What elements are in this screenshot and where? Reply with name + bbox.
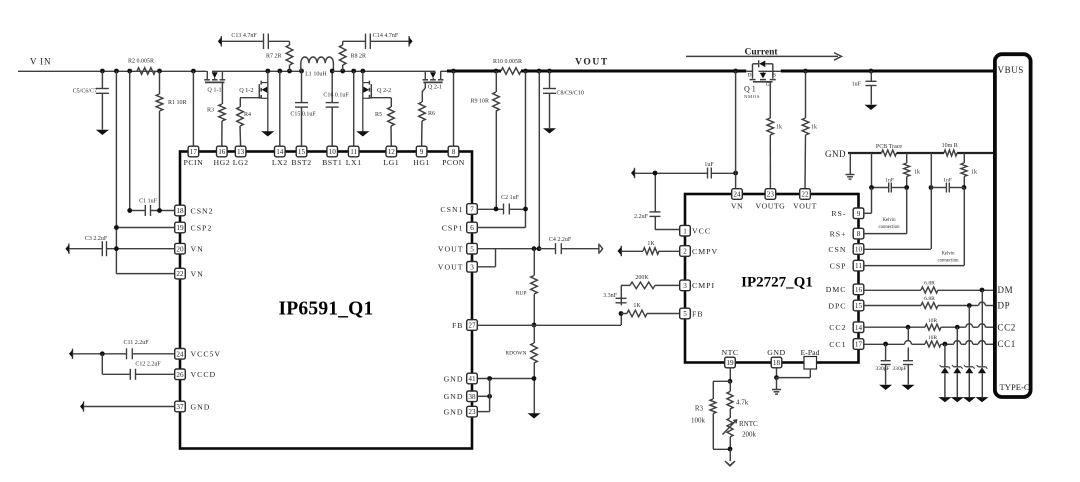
svg-text:IP2727_Q1: IP2727_Q1 bbox=[741, 275, 813, 291]
svg-text:15: 15 bbox=[855, 302, 863, 310]
svg-text:R5: R5 bbox=[375, 112, 382, 118]
svg-text:LG1: LG1 bbox=[383, 158, 399, 167]
svg-text:1k: 1k bbox=[914, 170, 920, 176]
svg-text:LX1: LX1 bbox=[346, 158, 362, 167]
svg-text:CSN2: CSN2 bbox=[191, 206, 214, 215]
svg-text:330pF: 330pF bbox=[875, 366, 889, 372]
svg-text:VOUT: VOUT bbox=[438, 263, 464, 272]
svg-text:C16 0.1uF: C16 0.1uF bbox=[323, 93, 349, 99]
svg-text:26: 26 bbox=[176, 371, 184, 379]
svg-text:CMPI: CMPI bbox=[692, 281, 715, 290]
svg-text:10R: 10R bbox=[928, 335, 938, 341]
svg-text:19: 19 bbox=[176, 224, 184, 232]
svg-text:Q 1-2: Q 1-2 bbox=[239, 87, 253, 94]
svg-text:R3: R3 bbox=[207, 108, 214, 114]
svg-text:1: 1 bbox=[683, 227, 687, 235]
svg-text:S: S bbox=[773, 73, 776, 79]
svg-text:DPC: DPC bbox=[828, 301, 846, 310]
svg-text:RDOWN: RDOWN bbox=[505, 351, 526, 357]
svg-text:6: 6 bbox=[470, 224, 474, 232]
svg-text:GND: GND bbox=[767, 348, 785, 357]
svg-text:LX2: LX2 bbox=[272, 158, 288, 167]
svg-text:connection: connection bbox=[937, 259, 959, 264]
svg-text:R3: R3 bbox=[695, 405, 704, 413]
svg-text:R2 0.005R: R2 0.005R bbox=[128, 59, 154, 65]
svg-text:24: 24 bbox=[176, 350, 184, 358]
svg-text:1nF: 1nF bbox=[885, 178, 894, 184]
svg-text:Q 1-1: Q 1-1 bbox=[207, 87, 221, 94]
svg-text:DMC: DMC bbox=[826, 285, 847, 294]
svg-text:15: 15 bbox=[298, 148, 306, 156]
svg-text:C2 1uF: C2 1uF bbox=[501, 195, 520, 201]
svg-text:14: 14 bbox=[276, 148, 284, 156]
svg-text:1uF: 1uF bbox=[852, 82, 862, 88]
svg-text:R1 10R: R1 10R bbox=[168, 100, 187, 106]
svg-text:1uF: 1uF bbox=[704, 162, 714, 168]
svg-text:CSN1: CSN1 bbox=[440, 205, 463, 214]
svg-text:IP6591_Q1: IP6591_Q1 bbox=[279, 299, 374, 320]
svg-text:PCON: PCON bbox=[442, 158, 465, 167]
svg-text:37: 37 bbox=[176, 403, 184, 411]
svg-text:CSP: CSP bbox=[830, 261, 847, 270]
svg-text:GND: GND bbox=[444, 374, 464, 383]
svg-text:VBUS: VBUS bbox=[998, 65, 1024, 75]
svg-text:1k: 1k bbox=[971, 170, 977, 176]
svg-text:C5/C6/C7: C5/C6/C7 bbox=[73, 89, 97, 95]
svg-text:41: 41 bbox=[468, 375, 476, 383]
svg-text:3.3nF: 3.3nF bbox=[603, 293, 618, 299]
svg-text:10: 10 bbox=[329, 148, 337, 156]
svg-text:10R: 10R bbox=[928, 318, 938, 324]
svg-text:FB: FB bbox=[692, 309, 704, 318]
svg-text:2.2uF: 2.2uF bbox=[634, 214, 649, 220]
svg-text:Q 2-2: Q 2-2 bbox=[377, 87, 391, 94]
svg-text:Kelvin: Kelvin bbox=[882, 218, 896, 223]
svg-text:R9 10R: R9 10R bbox=[470, 99, 489, 105]
svg-text:R8 2R: R8 2R bbox=[351, 54, 367, 60]
svg-text:VN: VN bbox=[191, 269, 204, 278]
svg-text:C15 0.1uF: C15 0.1uF bbox=[290, 112, 316, 118]
svg-text:10: 10 bbox=[855, 246, 863, 254]
svg-text:8: 8 bbox=[857, 230, 861, 238]
svg-text:CSP2: CSP2 bbox=[191, 223, 213, 232]
svg-text:R6: R6 bbox=[428, 111, 435, 117]
svg-text:L1 10uH: L1 10uH bbox=[305, 72, 327, 78]
svg-text:16: 16 bbox=[855, 286, 863, 294]
svg-text:VOUTG: VOUTG bbox=[756, 202, 786, 211]
svg-text:6.8R: 6.8R bbox=[924, 296, 935, 302]
svg-text:11: 11 bbox=[350, 148, 357, 156]
svg-text:PCB Trace: PCB Trace bbox=[876, 144, 903, 150]
svg-text:CC2: CC2 bbox=[998, 322, 1016, 332]
svg-text:HG1: HG1 bbox=[413, 158, 430, 167]
svg-text:10m R: 10m R bbox=[942, 143, 958, 149]
svg-text:23: 23 bbox=[767, 191, 775, 199]
svg-text:22: 22 bbox=[801, 191, 809, 199]
svg-text:VCC: VCC bbox=[692, 227, 711, 236]
svg-text:E-Pad: E-Pad bbox=[800, 348, 819, 357]
svg-text:CSN: CSN bbox=[828, 245, 846, 254]
svg-text:Kelvin: Kelvin bbox=[941, 252, 955, 257]
svg-text:20: 20 bbox=[176, 245, 184, 253]
svg-text:VN: VN bbox=[731, 202, 743, 211]
svg-text:VOUT: VOUT bbox=[575, 58, 609, 68]
svg-text:1k: 1k bbox=[811, 125, 817, 131]
svg-text:RS-: RS- bbox=[831, 209, 846, 218]
svg-text:RS+: RS+ bbox=[830, 229, 847, 238]
svg-text:1K: 1K bbox=[633, 303, 641, 309]
svg-text:G: G bbox=[766, 83, 770, 88]
svg-text:C14 4.7nF: C14 4.7nF bbox=[373, 33, 399, 39]
svg-text:R7 2R: R7 2R bbox=[266, 54, 282, 60]
svg-text:C8/C9/C10: C8/C9/C10 bbox=[557, 91, 584, 97]
svg-text:2: 2 bbox=[683, 248, 687, 256]
svg-text:C4 2.2uF: C4 2.2uF bbox=[549, 237, 572, 243]
svg-text:Q 1: Q 1 bbox=[744, 85, 756, 94]
svg-text:200K: 200K bbox=[635, 275, 649, 281]
svg-text:9: 9 bbox=[857, 210, 861, 218]
svg-text:FB: FB bbox=[452, 321, 464, 330]
svg-text:Q 2-1: Q 2-1 bbox=[428, 84, 442, 91]
svg-text:16: 16 bbox=[218, 148, 226, 156]
svg-text:BST1: BST1 bbox=[322, 158, 342, 167]
svg-text:C13 4.7nF: C13 4.7nF bbox=[231, 33, 257, 39]
svg-text:27: 27 bbox=[468, 322, 476, 330]
svg-text:3: 3 bbox=[683, 282, 687, 290]
svg-text:1nF: 1nF bbox=[943, 178, 952, 184]
svg-text:5: 5 bbox=[683, 310, 687, 318]
svg-text:DM: DM bbox=[998, 285, 1014, 295]
svg-text:GND: GND bbox=[191, 402, 211, 411]
svg-text:330pF: 330pF bbox=[892, 366, 906, 372]
svg-text:1k: 1k bbox=[776, 125, 782, 131]
svg-text:GND: GND bbox=[825, 149, 846, 159]
svg-text:23: 23 bbox=[468, 408, 476, 416]
svg-text:5: 5 bbox=[470, 245, 474, 253]
svg-text:1K: 1K bbox=[647, 241, 655, 247]
svg-text:V IN: V IN bbox=[30, 57, 51, 67]
svg-text:12: 12 bbox=[388, 148, 396, 156]
svg-text:CMPV: CMPV bbox=[692, 247, 718, 256]
svg-text:11: 11 bbox=[855, 262, 862, 270]
svg-text:BST2: BST2 bbox=[291, 158, 311, 167]
svg-text:13: 13 bbox=[237, 148, 245, 156]
svg-text:VOUT: VOUT bbox=[793, 202, 817, 211]
svg-text:CC2: CC2 bbox=[829, 323, 846, 332]
svg-text:LG2: LG2 bbox=[233, 158, 249, 167]
svg-text:VCC5V: VCC5V bbox=[191, 350, 222, 359]
svg-text:VN: VN bbox=[191, 245, 204, 254]
svg-text:VCCD: VCCD bbox=[191, 370, 217, 379]
svg-text:17: 17 bbox=[190, 148, 198, 156]
svg-text:24: 24 bbox=[733, 191, 741, 199]
svg-text:9: 9 bbox=[420, 148, 424, 156]
svg-text:RUP: RUP bbox=[516, 291, 527, 297]
svg-text:C3 2.2uF: C3 2.2uF bbox=[85, 236, 108, 242]
svg-text:PCIN: PCIN bbox=[184, 158, 204, 167]
svg-text:RNTC: RNTC bbox=[739, 420, 758, 428]
svg-text:CC1: CC1 bbox=[998, 339, 1016, 349]
svg-text:DP: DP bbox=[998, 301, 1011, 311]
svg-text:VOUT: VOUT bbox=[438, 245, 464, 254]
svg-text:R10 0.005R: R10 0.005R bbox=[493, 59, 522, 65]
svg-text:C12 2.2uF: C12 2.2uF bbox=[135, 362, 161, 368]
svg-text:CSP1: CSP1 bbox=[442, 223, 464, 232]
svg-text:C11 2.2uF: C11 2.2uF bbox=[123, 340, 149, 346]
svg-text:18: 18 bbox=[773, 359, 781, 367]
svg-text:C1 1uF: C1 1uF bbox=[139, 199, 158, 205]
svg-text:GND: GND bbox=[444, 392, 464, 401]
svg-text:R4: R4 bbox=[244, 112, 251, 118]
svg-text:HG2: HG2 bbox=[213, 158, 230, 167]
svg-text:7: 7 bbox=[470, 206, 474, 214]
svg-text:GND: GND bbox=[444, 407, 464, 416]
svg-text:14: 14 bbox=[855, 324, 863, 332]
svg-text:17: 17 bbox=[855, 341, 863, 349]
svg-text:NTC: NTC bbox=[721, 348, 738, 357]
svg-text:CC1: CC1 bbox=[829, 340, 846, 349]
svg-text:22: 22 bbox=[176, 270, 184, 278]
svg-text:18: 18 bbox=[176, 207, 184, 215]
svg-text:D: D bbox=[748, 73, 752, 79]
svg-text:6.8R: 6.8R bbox=[924, 281, 935, 287]
svg-text:100k: 100k bbox=[691, 417, 706, 425]
svg-text:TYPE-C: TYPE-C bbox=[1000, 382, 1030, 392]
svg-text:19: 19 bbox=[726, 359, 734, 367]
svg-text:200k: 200k bbox=[742, 431, 757, 439]
svg-text:NMOS: NMOS bbox=[744, 94, 760, 99]
svg-text:connection: connection bbox=[878, 225, 900, 230]
svg-text:38: 38 bbox=[468, 393, 476, 401]
svg-text:8: 8 bbox=[452, 148, 456, 156]
svg-text:Current: Current bbox=[744, 48, 778, 58]
svg-text:4.7k: 4.7k bbox=[736, 399, 749, 407]
svg-text:3: 3 bbox=[470, 263, 474, 271]
